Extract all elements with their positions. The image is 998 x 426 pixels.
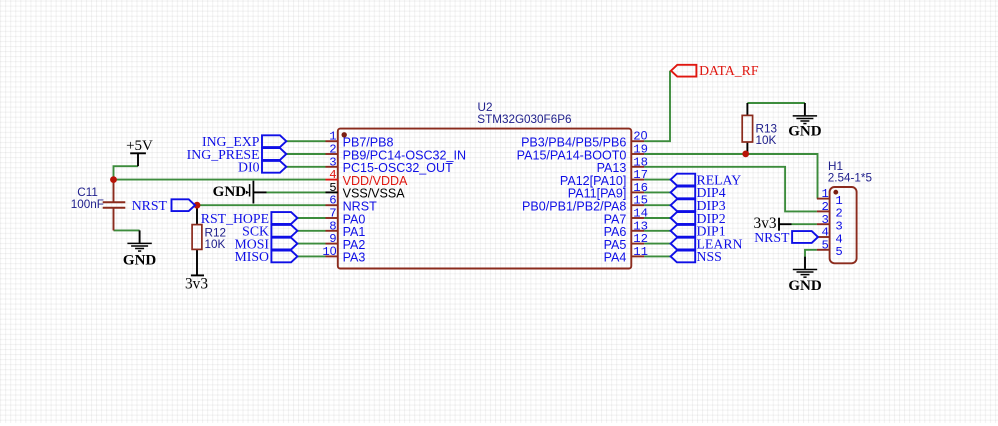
svg-text:MISO: MISO [235, 249, 270, 264]
svg-text:GND: GND [788, 124, 822, 140]
svg-text:10K: 10K [756, 134, 777, 147]
svg-text:+5V: +5V [126, 138, 153, 154]
svg-text:NSS: NSS [697, 249, 722, 264]
svg-text:DATA_RF: DATA_RF [699, 63, 759, 78]
svg-text:2.54-1*5: 2.54-1*5 [828, 171, 873, 184]
svg-text:PA3: PA3 [343, 251, 366, 265]
svg-text:100nF: 100nF [71, 198, 104, 211]
svg-text:10K: 10K [205, 238, 226, 251]
svg-text:PA4: PA4 [604, 251, 627, 265]
svg-text:DI0: DI0 [238, 160, 260, 175]
svg-text:3v3: 3v3 [185, 275, 208, 292]
svg-text:STM32G030F6P6: STM32G030F6P6 [477, 113, 571, 126]
svg-text:5: 5 [835, 245, 842, 259]
svg-text:GND: GND [213, 184, 247, 200]
svg-text:11: 11 [633, 245, 648, 259]
svg-text:GND: GND [123, 252, 157, 268]
svg-text:U2: U2 [478, 101, 493, 114]
svg-text:C11: C11 [77, 186, 98, 199]
svg-text:NRST: NRST [132, 198, 168, 213]
svg-text:5: 5 [822, 238, 829, 252]
svg-text:GND: GND [788, 278, 822, 294]
svg-text:10: 10 [322, 244, 336, 259]
svg-text:20: 20 [633, 129, 647, 144]
svg-text:NRST: NRST [754, 230, 790, 245]
